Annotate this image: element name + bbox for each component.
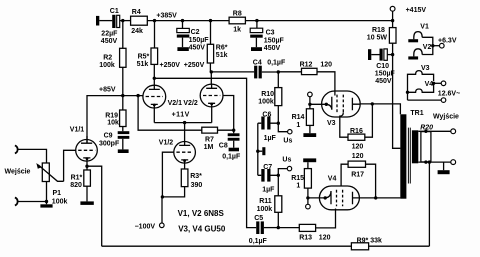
label C8 xyxy=(219,143,228,150)
svg-text:51k: 51k xyxy=(216,52,228,59)
heater V3 xyxy=(408,71,434,93)
node B C6/R10 xyxy=(277,122,280,125)
label R2 100k xyxy=(99,54,115,68)
resistor R14 xyxy=(306,104,313,133)
svg-text:+250V: +250V xyxy=(160,62,181,69)
transformer TR1 secondary xyxy=(412,130,418,163)
svg-text:24k: 24k xyxy=(131,28,143,35)
svg-text:1: 1 xyxy=(296,122,300,129)
wire V1/1 anode to +85V xyxy=(87,96,143,144)
svg-text:120: 120 xyxy=(319,235,331,242)
resistor R11 xyxy=(275,175,282,227)
label C5 xyxy=(254,215,263,222)
svg-text:C2: C2 xyxy=(191,29,200,36)
label 0,1uF C8 xyxy=(222,154,241,161)
wire V2/2 anode to C4 xyxy=(211,71,254,73)
resistor R12 xyxy=(278,68,335,95)
resistor R16 xyxy=(348,104,372,140)
wire V3 anode to primary top xyxy=(361,104,401,114)
svg-text:450V: 450V xyxy=(375,78,392,85)
svg-text:820: 820 xyxy=(70,182,82,189)
svg-text:10k: 10k xyxy=(107,120,119,127)
capacitor C7 1uF xyxy=(258,169,279,182)
pentode V3 xyxy=(322,91,361,117)
terminal below R15 xyxy=(306,204,311,209)
svg-text:R19: R19 xyxy=(105,112,118,119)
svg-text:V3, V4 GU50: V3, V4 GU50 xyxy=(178,224,226,233)
label R13 120 xyxy=(299,235,330,242)
label R19 10k xyxy=(105,112,119,126)
svg-text:100k: 100k xyxy=(257,206,273,213)
svg-text:1: 1 xyxy=(296,183,300,190)
label +250V right xyxy=(184,62,205,69)
node +85V/R2 xyxy=(121,94,124,97)
label +250V left xyxy=(160,62,181,69)
svg-text:R18: R18 xyxy=(372,27,385,34)
svg-text:Us: Us xyxy=(283,138,292,145)
svg-text:R9* 33k: R9* 33k xyxy=(357,237,382,244)
ground R1 xyxy=(80,201,93,205)
svg-text:R4: R4 xyxy=(132,9,141,16)
svg-text:V3: V3 xyxy=(421,65,430,72)
svg-text:300pF: 300pF xyxy=(99,140,120,147)
wire to 6.3V terminal xyxy=(433,45,440,47)
node +415V rail xyxy=(391,19,394,22)
triode V2/1 xyxy=(143,78,166,122)
terminal +415V xyxy=(390,6,395,11)
svg-text:C9: C9 xyxy=(104,133,113,140)
svg-text:+11V: +11V xyxy=(172,112,190,119)
svg-text:100k: 100k xyxy=(258,98,274,105)
label 1uF C6 xyxy=(264,135,277,142)
label V2/1 V2/2 xyxy=(168,100,198,107)
node V1/2 anode on rail xyxy=(183,121,186,124)
svg-text:R8: R8 xyxy=(233,10,242,17)
terminal 12.6V bottom xyxy=(441,98,446,103)
svg-text:450V: 450V xyxy=(264,45,281,52)
svg-text:V1/1: V1/1 xyxy=(70,126,85,133)
svg-text:C4: C4 xyxy=(253,60,262,67)
svg-text:−100V: −100V xyxy=(135,224,156,231)
svg-text:R2: R2 xyxy=(103,54,112,61)
node R15 bottom xyxy=(306,196,309,199)
ground output xyxy=(438,162,450,174)
wire -100V xyxy=(161,197,163,223)
svg-text:V4: V4 xyxy=(328,176,337,183)
svg-text:Us: Us xyxy=(282,156,291,163)
label C2 150uF 450V xyxy=(189,29,210,51)
transformer core xyxy=(408,128,410,184)
wire feedback down xyxy=(428,162,430,246)
resistor R3 xyxy=(162,169,188,197)
svg-text:450V: 450V xyxy=(189,44,206,51)
label 1uF C7 xyxy=(262,186,275,193)
svg-text:51k: 51k xyxy=(137,61,149,68)
node V3 anode xyxy=(371,102,374,105)
svg-text:V2: V2 xyxy=(423,44,432,51)
wire V3 cathode to R14 xyxy=(310,103,326,105)
capacitor C4 0,1uF xyxy=(254,66,278,79)
label V1/2 xyxy=(159,140,174,147)
resistor R2 xyxy=(120,21,126,96)
node output feedback xyxy=(428,160,431,163)
label R10 100k xyxy=(258,91,274,106)
label C3 150uF 450V xyxy=(264,30,285,52)
svg-text:C10: C10 xyxy=(376,63,389,70)
svg-text:12.6V~: 12.6V~ xyxy=(438,90,460,97)
resistor R6 xyxy=(207,21,213,72)
svg-text:R3*: R3* xyxy=(190,173,202,180)
svg-text:Wyjście: Wyjście xyxy=(433,114,459,121)
svg-text:C3: C3 xyxy=(266,30,275,37)
heater V4 xyxy=(408,83,434,100)
wire V3 g2 to R16 xyxy=(340,112,348,137)
wire feedback to V1/1 cathode xyxy=(87,166,102,246)
node C1/R2 xyxy=(121,19,124,22)
svg-text:C7: C7 xyxy=(263,164,272,171)
svg-text:+250V: +250V xyxy=(184,62,205,69)
node P1 ground junction xyxy=(45,200,48,203)
label +11V xyxy=(172,112,190,119)
label C10 150uF 450V xyxy=(375,63,396,85)
label +85V xyxy=(99,87,116,94)
label R6* 51k xyxy=(216,44,228,59)
svg-text:+415V: +415V xyxy=(406,7,427,14)
label C1 xyxy=(110,8,119,15)
wire +385V rail xyxy=(147,20,392,22)
node -100V junction xyxy=(161,195,164,198)
wire V2/1 anode to C5 xyxy=(154,78,256,227)
svg-text:1µF: 1µF xyxy=(264,135,277,142)
label 0,1uF C5 xyxy=(249,238,268,245)
resistor R15 xyxy=(304,162,311,204)
svg-text:0,1µF: 0,1µF xyxy=(222,154,241,161)
svg-text:R10: R10 xyxy=(261,91,274,98)
svg-text:150µF: 150µF xyxy=(189,37,210,44)
svg-text:V1: V1 xyxy=(420,24,429,31)
node C C7/R11 xyxy=(277,174,280,177)
ground R15 xyxy=(303,158,316,162)
node R20 top xyxy=(424,130,427,133)
node +385V/C2 xyxy=(181,19,184,22)
label R4 24k xyxy=(131,9,143,35)
node heater 6.3V xyxy=(431,44,434,47)
triode V2/2 xyxy=(200,72,223,123)
label 12.6V xyxy=(438,90,460,97)
svg-text:TR1: TR1 xyxy=(410,110,423,117)
terminal Us1 xyxy=(288,130,292,134)
wire P1 wiper to V1/1 grid xyxy=(64,150,76,181)
svg-text:150µF: 150µF xyxy=(375,70,396,77)
capacitor C2 150uF 450V xyxy=(177,21,190,48)
svg-text:0,1µF: 0,1µF xyxy=(267,60,286,67)
svg-text:1M: 1M xyxy=(204,144,214,151)
svg-text:100k: 100k xyxy=(52,198,68,205)
label -100V xyxy=(135,224,156,231)
svg-text:Wejście: Wejście xyxy=(5,168,31,175)
svg-text:V3: V3 xyxy=(327,120,336,127)
node V2/1 anode xyxy=(153,77,156,80)
ground C3 xyxy=(251,47,262,51)
svg-text:C1: C1 xyxy=(110,8,119,15)
svg-text:C8: C8 xyxy=(219,143,228,150)
wire V2/2 grid xyxy=(223,96,234,131)
svg-text:R15: R15 xyxy=(291,175,304,182)
node V1/1 cathode xyxy=(85,165,88,168)
heater V1 xyxy=(414,32,433,46)
svg-text:100k: 100k xyxy=(99,62,115,69)
svg-text:R5*: R5* xyxy=(138,53,150,60)
node D R11/C5/R13 xyxy=(277,226,280,229)
resistor R5 xyxy=(151,21,158,79)
wire V4 g2 to R17 xyxy=(341,164,348,186)
input jack bottom terminal xyxy=(15,198,18,206)
label V1/1 xyxy=(70,126,85,133)
input terminal bar at C1 xyxy=(96,16,99,26)
resistor R18 xyxy=(389,28,400,149)
wire to C1 xyxy=(99,20,112,22)
svg-text:V2/1: V2/1 xyxy=(168,100,183,107)
capacitor C10 150uF 450V xyxy=(371,49,392,61)
node +385V/R6 xyxy=(209,19,212,22)
label V4 heater xyxy=(425,81,434,88)
wire +415V down xyxy=(392,11,394,27)
svg-text:1k: 1k xyxy=(233,27,241,34)
label R15 1 xyxy=(291,175,304,190)
svg-text:390: 390 xyxy=(191,182,203,189)
resistor R9 xyxy=(351,243,368,250)
label R20 xyxy=(420,125,433,132)
label R9* 33k xyxy=(357,237,382,244)
label +6.3V xyxy=(438,37,457,44)
node heater 12.6V xyxy=(432,82,435,85)
wire input to P1 xyxy=(17,149,46,163)
capacitor C6 1uF xyxy=(258,117,279,130)
label V4 xyxy=(328,176,337,183)
svg-text:+85V: +85V xyxy=(99,87,116,94)
svg-text:R17: R17 xyxy=(351,171,364,178)
terminal above R14 xyxy=(308,92,313,104)
terminal output bottom xyxy=(451,160,456,165)
capacitor C1 22uF 450V xyxy=(112,15,120,28)
label R7 1M xyxy=(204,136,214,151)
svg-text:R1*: R1* xyxy=(71,175,83,182)
node R8/C3 xyxy=(255,19,258,22)
label P1 100k xyxy=(52,190,68,205)
svg-text:C6: C6 xyxy=(262,111,271,118)
node A after C4 xyxy=(277,70,280,73)
svg-text:R14: R14 xyxy=(292,114,305,121)
svg-text:0,1µF: 0,1µF xyxy=(249,238,268,245)
node R14 top xyxy=(308,103,311,106)
wire output bottom xyxy=(418,161,451,163)
resistor R20 xyxy=(421,132,431,162)
terminal Us2 xyxy=(287,166,291,170)
capacitor C8 0,1uF xyxy=(228,130,240,148)
svg-text:V1, V2 6N8S: V1, V2 6N8S xyxy=(178,209,225,218)
node +85V/R7 tap xyxy=(136,94,139,97)
label 120 R17 xyxy=(351,153,364,178)
label R18 10 5W xyxy=(367,27,388,41)
capacitor C9 300pF xyxy=(118,131,130,149)
node C8 xyxy=(232,129,235,132)
label R14 1 xyxy=(292,114,305,129)
svg-text:22µF: 22µF xyxy=(101,30,118,37)
potentiometer P1 xyxy=(37,163,64,182)
wire R7 left leg xyxy=(138,96,202,131)
resistor R7 xyxy=(202,127,234,133)
svg-text:120: 120 xyxy=(320,61,332,68)
label Us1 xyxy=(283,138,292,145)
svg-text:V2/2: V2/2 xyxy=(183,100,198,107)
label 22uF 450V xyxy=(101,30,118,45)
wire C1 to R4 xyxy=(120,20,131,22)
node heater loop corner xyxy=(406,91,409,94)
label R1* 820 xyxy=(70,175,82,189)
node R20 bottom xyxy=(424,160,427,163)
wire to 12.6V terminal bottom xyxy=(408,99,442,101)
wire bottom rail xyxy=(102,245,430,247)
cathode rail V2 xyxy=(154,122,211,124)
terminal bar stub xyxy=(258,147,266,155)
wire C6-C7 link xyxy=(257,123,259,175)
label V1 V2 6N8S xyxy=(178,209,225,218)
capacitor C3 150uF 450V xyxy=(250,21,263,48)
wire input gnd xyxy=(17,182,46,205)
label R16 120 xyxy=(350,128,363,151)
wire V4 cathode to R15 xyxy=(308,197,325,199)
svg-text:R7: R7 xyxy=(205,136,214,143)
label C4 0,1uF xyxy=(253,60,286,67)
terminal 12.6V top xyxy=(441,81,446,86)
ground R14 xyxy=(303,133,316,137)
svg-text:150µF: 150µF xyxy=(264,37,285,44)
heater V1 ground xyxy=(408,39,418,42)
node V4 anode xyxy=(374,196,377,199)
heater V2 xyxy=(414,46,433,57)
resistor R8 xyxy=(229,17,245,24)
svg-text:C5: C5 xyxy=(254,215,263,222)
svg-text:120: 120 xyxy=(352,153,364,160)
svg-text:R12: R12 xyxy=(300,61,313,68)
resistor R19 xyxy=(120,96,126,132)
label +385V xyxy=(156,12,177,19)
label V2 heater xyxy=(423,44,432,51)
svg-text:R16: R16 xyxy=(350,128,363,135)
label R5* 51k xyxy=(137,53,150,67)
svg-text:V1/2: V1/2 xyxy=(159,140,174,147)
resistor R13 xyxy=(278,209,335,232)
label +415V xyxy=(406,7,427,14)
resistor R4 xyxy=(131,16,148,25)
resistor R17 xyxy=(348,161,376,198)
ground C8 xyxy=(229,148,239,152)
resistor R10 xyxy=(275,72,282,123)
node V3 cathode xyxy=(325,103,328,106)
pentode V4 xyxy=(319,186,359,210)
svg-text:450V: 450V xyxy=(101,38,118,45)
terminal output top xyxy=(451,129,456,134)
svg-text:R6*: R6* xyxy=(216,44,228,51)
label V3 xyxy=(327,120,336,127)
node V2/2 anode xyxy=(210,70,213,73)
transformer TR1 primary xyxy=(400,114,406,198)
node link stub xyxy=(256,150,259,153)
heater V2 ground xyxy=(408,56,418,59)
wire output top xyxy=(418,130,451,132)
resistor R1 xyxy=(84,166,91,201)
wire to 12.6V terminal top xyxy=(434,82,442,84)
label C9 300pF xyxy=(99,133,120,148)
svg-text:1µF: 1µF xyxy=(262,186,275,193)
svg-text:R11: R11 xyxy=(259,198,272,205)
label Wyjscie xyxy=(433,114,459,121)
input jack top terminal xyxy=(15,145,18,153)
svg-text:R13: R13 xyxy=(299,235,312,242)
label R8 1k xyxy=(233,10,242,33)
label Wejscie xyxy=(5,168,31,175)
label Us2 xyxy=(282,156,291,163)
triode V1/2 xyxy=(174,123,196,169)
ground C9 xyxy=(118,149,129,153)
wire V1/2 grid to -100V node xyxy=(162,152,174,197)
label V3 heater xyxy=(421,65,430,72)
label TR1 xyxy=(410,110,423,117)
svg-text:+385V: +385V xyxy=(156,12,177,19)
node V4 cathode xyxy=(324,196,327,199)
wire Us2 xyxy=(278,169,287,176)
label R12 120 xyxy=(300,61,333,68)
label C7 xyxy=(263,164,272,171)
wire Us1 xyxy=(278,123,287,132)
svg-text:120: 120 xyxy=(352,144,364,151)
label V3 V4 GU50 xyxy=(178,224,226,233)
wire V4 anode to primary bottom xyxy=(359,197,400,199)
terminal -100V xyxy=(160,223,165,228)
svg-text:V4: V4 xyxy=(425,81,434,88)
terminal bar at C10 xyxy=(368,49,371,60)
terminal +6.3V xyxy=(440,43,445,48)
label R11 100k xyxy=(257,198,273,213)
svg-text:10 5W: 10 5W xyxy=(367,35,388,42)
svg-text:P1: P1 xyxy=(53,190,62,197)
node +385V/R5 xyxy=(153,19,156,22)
capacitor C5 0,1uF xyxy=(256,221,278,234)
label C6 xyxy=(262,111,271,118)
label V1 heater xyxy=(420,24,429,31)
label R3* 390 xyxy=(190,173,202,189)
node C10 xyxy=(391,53,394,56)
ground C2 xyxy=(177,47,188,51)
triode V1/1 xyxy=(76,136,98,166)
ground P1 xyxy=(40,204,52,207)
svg-text:+6.3V: +6.3V xyxy=(438,37,457,44)
